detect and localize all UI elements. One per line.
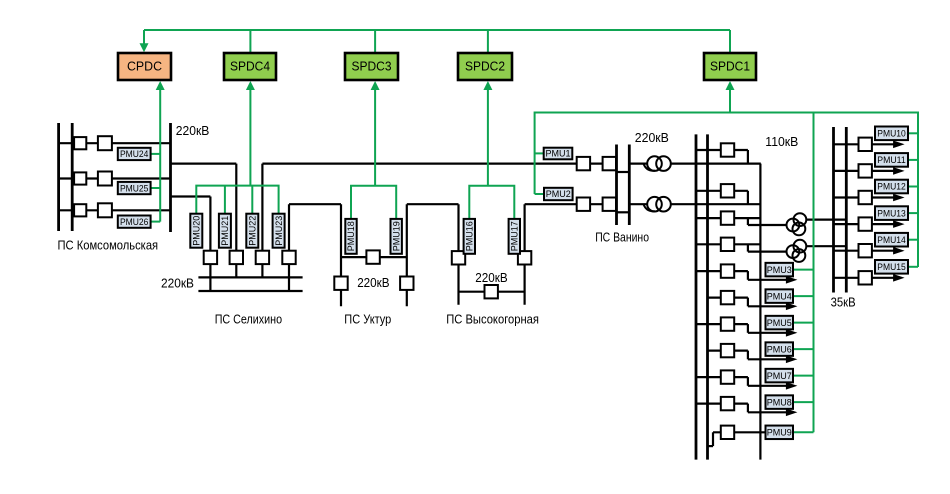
svg-text:110кВ: 110кВ <box>765 135 798 149</box>
svg-text:PMU10: PMU10 <box>877 129 905 139</box>
svg-text:220кВ: 220кВ <box>635 131 669 145</box>
svg-text:PMU5: PMU5 <box>767 318 792 328</box>
svg-text:ПС Комсомольская: ПС Комсомольская <box>58 238 159 252</box>
svg-text:PMU16: PMU16 <box>465 221 475 251</box>
svg-text:ПС Высокогорная: ПС Высокогорная <box>446 313 539 327</box>
svg-text:SPDC2: SPDC2 <box>465 59 505 74</box>
svg-text:PMU26: PMU26 <box>120 217 148 227</box>
svg-text:PMU20: PMU20 <box>192 216 202 246</box>
svg-text:ПС Селихино: ПС Селихино <box>215 313 282 327</box>
svg-text:PMU19: PMU19 <box>391 221 401 251</box>
svg-text:35кВ: 35кВ <box>831 295 856 309</box>
svg-text:PMU7: PMU7 <box>767 371 792 381</box>
svg-text:PMU22: PMU22 <box>248 216 258 246</box>
svg-text:PMU4: PMU4 <box>767 291 792 301</box>
svg-text:ПС Ванино: ПС Ванино <box>595 231 649 245</box>
svg-text:PMU11: PMU11 <box>877 155 905 165</box>
svg-text:PMU3: PMU3 <box>767 265 792 275</box>
svg-text:PMU23: PMU23 <box>274 216 284 246</box>
svg-text:PMU9: PMU9 <box>767 428 792 438</box>
svg-text:PMU6: PMU6 <box>767 344 792 354</box>
svg-text:PMU15: PMU15 <box>877 262 905 272</box>
svg-text:PMU13: PMU13 <box>877 208 905 218</box>
svg-text:PMU2: PMU2 <box>546 189 571 199</box>
svg-text:220кВ: 220кВ <box>176 124 210 138</box>
svg-text:PMU1: PMU1 <box>545 149 570 159</box>
svg-text:ПС Уктур: ПС Уктур <box>344 313 391 327</box>
svg-text:PMU8: PMU8 <box>767 397 792 407</box>
svg-text:PMU24: PMU24 <box>120 149 148 159</box>
svg-text:220кВ: 220кВ <box>475 271 507 285</box>
svg-text:PMU21: PMU21 <box>220 216 230 246</box>
svg-text:SPDC4: SPDC4 <box>230 59 270 74</box>
svg-text:SPDC3: SPDC3 <box>352 59 392 74</box>
svg-text:PMU17: PMU17 <box>510 221 520 251</box>
svg-text:PMU12: PMU12 <box>877 182 905 192</box>
svg-text:SPDC1: SPDC1 <box>710 59 750 74</box>
svg-text:PMU14: PMU14 <box>877 235 905 245</box>
svg-text:220кВ: 220кВ <box>161 277 194 291</box>
svg-text:220кВ: 220кВ <box>357 276 389 290</box>
svg-text:CPDC: CPDC <box>127 59 162 74</box>
svg-text:PMU25: PMU25 <box>120 183 148 193</box>
svg-text:PMU18: PMU18 <box>346 221 356 251</box>
